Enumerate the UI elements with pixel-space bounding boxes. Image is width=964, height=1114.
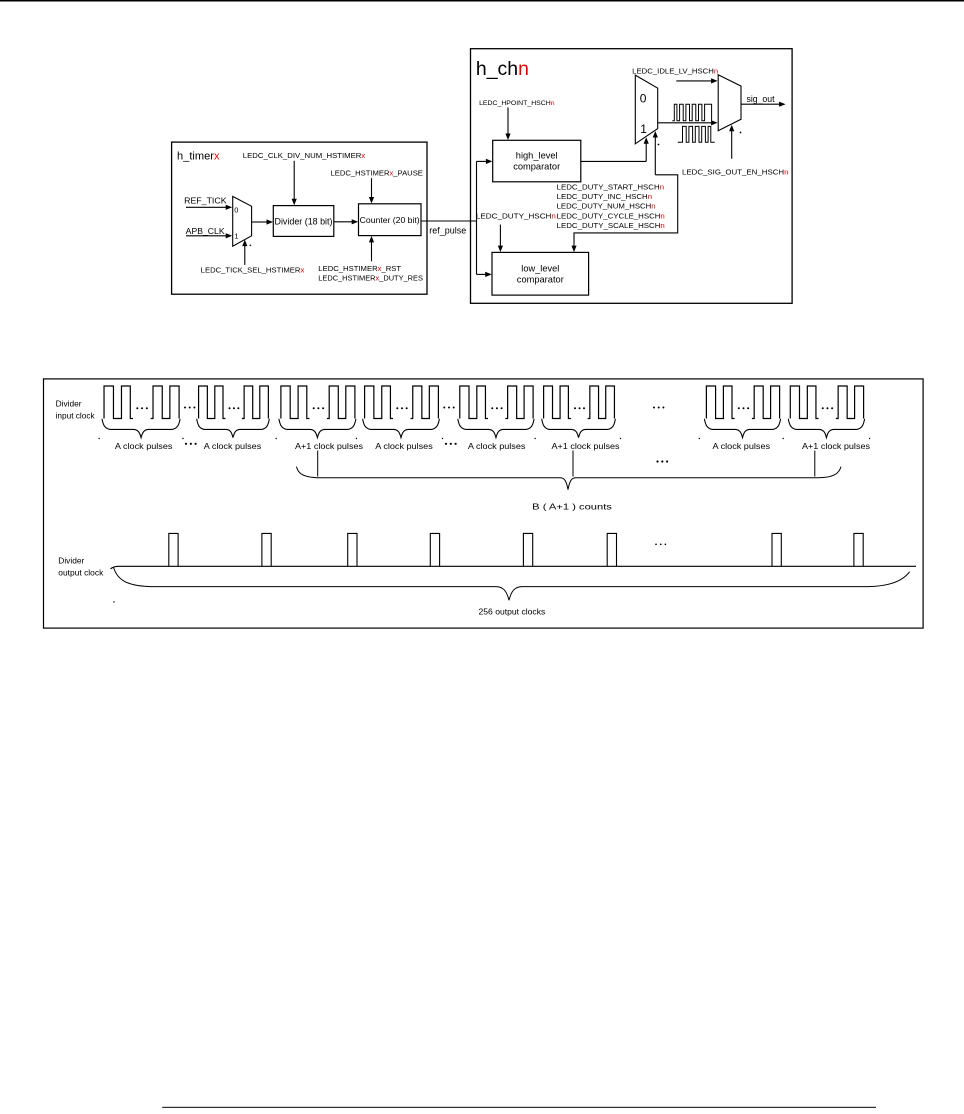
svg-text:Divider: Divider bbox=[56, 400, 82, 409]
svg-text:LEDC_TICK_SEL_HSTIMER: LEDC_TICK_SEL_HSTIMER bbox=[201, 265, 301, 274]
svg-text:low_level: low_level bbox=[521, 264, 559, 274]
svg-text:1: 1 bbox=[640, 122, 647, 136]
svg-text:A clock pulses: A clock pulses bbox=[375, 442, 433, 451]
svg-text:h_ch: h_ch bbox=[476, 58, 518, 80]
svg-text:REF_TICK: REF_TICK bbox=[184, 197, 227, 206]
svg-text:Counter (20 bit): Counter (20 bit) bbox=[360, 215, 420, 225]
svg-text:n: n bbox=[660, 183, 664, 192]
svg-text:B ( A+1 ) counts: B ( A+1 ) counts bbox=[532, 503, 612, 512]
svg-text:LEDC_DUTY_START_HSCH: LEDC_DUTY_START_HSCH bbox=[557, 183, 660, 192]
svg-text:LEDC_DUTY_CYCLE_HSCH: LEDC_DUTY_CYCLE_HSCH bbox=[557, 211, 661, 220]
svg-text:n: n bbox=[518, 58, 529, 80]
svg-text:LEDC_HSTIMER: LEDC_HSTIMER bbox=[318, 273, 375, 282]
svg-text:256 output clocks: 256 output clocks bbox=[479, 608, 546, 617]
svg-text:n: n bbox=[660, 211, 664, 220]
svg-text:0: 0 bbox=[234, 206, 238, 215]
svg-text:LEDC_SIG_OUT_EN_HSCH: LEDC_SIG_OUT_EN_HSCH bbox=[682, 168, 784, 177]
svg-text:n: n bbox=[648, 192, 652, 201]
svg-text:A+1 clock pulses: A+1 clock pulses bbox=[552, 442, 620, 451]
svg-text:LEDC_HPOINT_HSCH: LEDC_HPOINT_HSCH bbox=[479, 100, 551, 107]
svg-text:A+1 clock pulses: A+1 clock pulses bbox=[295, 442, 363, 451]
svg-text:comparator: comparator bbox=[513, 162, 560, 172]
svg-text:output clock: output clock bbox=[58, 569, 104, 578]
svg-text:n: n bbox=[551, 211, 556, 220]
svg-text:comparator: comparator bbox=[517, 274, 564, 284]
svg-text:sig_out: sig_out bbox=[747, 94, 775, 104]
svg-text:A clock pulses: A clock pulses bbox=[115, 442, 173, 451]
svg-text:input clock: input clock bbox=[56, 412, 96, 421]
svg-text:n: n bbox=[651, 202, 655, 211]
svg-text:n: n bbox=[660, 221, 664, 230]
svg-text:x: x bbox=[300, 265, 304, 274]
svg-text:LEDC_DUTY_NUM_HSCH: LEDC_DUTY_NUM_HSCH bbox=[557, 202, 652, 211]
svg-text:_PAUSE: _PAUSE bbox=[392, 169, 423, 178]
svg-text:LEDC_DUTY_SCALE_HSCH: LEDC_DUTY_SCALE_HSCH bbox=[557, 221, 661, 230]
svg-text:LEDC_DUTY_HSCH: LEDC_DUTY_HSCH bbox=[476, 211, 552, 220]
svg-text:APB_CLK: APB_CLK bbox=[186, 227, 226, 236]
svg-text:LEDC_CLK_DIV_NUM_HSTIMER: LEDC_CLK_DIV_NUM_HSTIMER bbox=[243, 151, 362, 160]
svg-text:n: n bbox=[551, 100, 555, 107]
svg-text:1: 1 bbox=[234, 232, 238, 241]
svg-text:x: x bbox=[361, 151, 365, 160]
svg-text:A clock pulses: A clock pulses bbox=[204, 442, 262, 451]
svg-text:LEDC_HSTIMER: LEDC_HSTIMER bbox=[318, 264, 378, 273]
svg-text:_RST: _RST bbox=[380, 264, 401, 273]
svg-text:A+1 clock pulses: A+1 clock pulses bbox=[802, 442, 870, 451]
svg-text:n: n bbox=[784, 168, 788, 177]
svg-text:high_level: high_level bbox=[516, 151, 558, 161]
svg-text:Divider: Divider bbox=[58, 557, 84, 566]
svg-text:_DUTY_RES: _DUTY_RES bbox=[378, 273, 423, 282]
svg-text:LEDC_HSTIMER: LEDC_HSTIMER bbox=[331, 169, 391, 178]
svg-text:x: x bbox=[214, 150, 220, 162]
svg-text:A clock pulses: A clock pulses bbox=[713, 442, 771, 451]
svg-text:LEDC_IDLE_LV_HSCH: LEDC_IDLE_LV_HSCH bbox=[632, 66, 714, 75]
svg-text:ref_pulse: ref_pulse bbox=[429, 225, 466, 235]
svg-text:A clock pulses: A clock pulses bbox=[468, 442, 526, 451]
svg-text:LEDC_DUTY_INC_HSCH: LEDC_DUTY_INC_HSCH bbox=[557, 192, 648, 201]
svg-text:Divider (18 bit): Divider (18 bit) bbox=[275, 216, 333, 226]
svg-text:h_timer: h_timer bbox=[177, 150, 214, 162]
svg-text:n: n bbox=[714, 66, 718, 75]
svg-text:0: 0 bbox=[640, 92, 647, 106]
